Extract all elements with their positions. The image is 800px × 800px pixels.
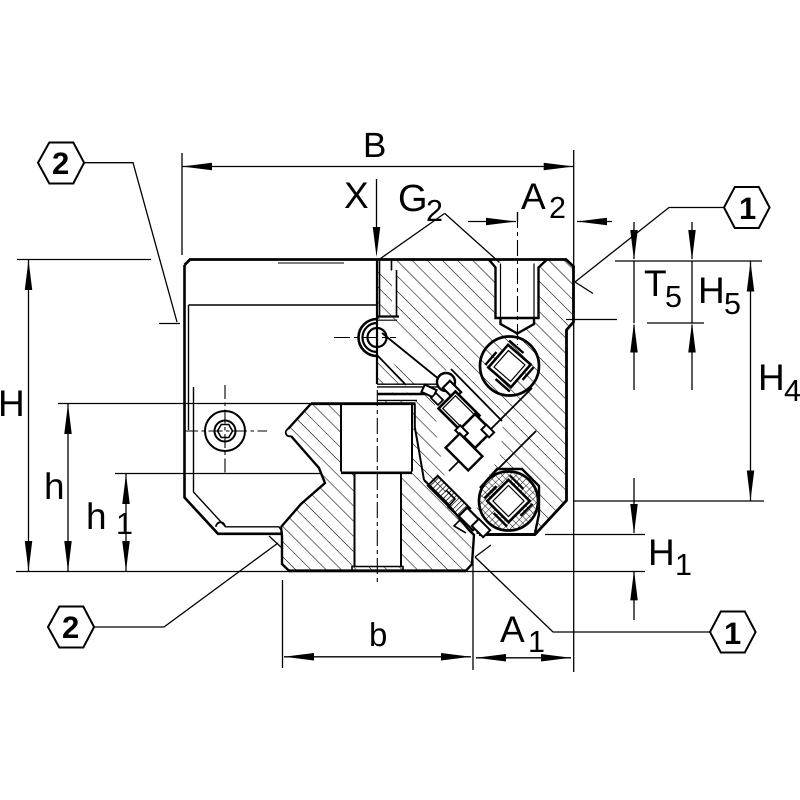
svg-text:T: T bbox=[644, 263, 667, 304]
svg-text:2: 2 bbox=[426, 194, 443, 228]
svg-text:1: 1 bbox=[116, 507, 133, 541]
svg-text:A: A bbox=[500, 609, 525, 650]
svg-text:2: 2 bbox=[62, 610, 79, 645]
svg-text:1: 1 bbox=[528, 625, 545, 659]
svg-text:G: G bbox=[398, 178, 428, 220]
svg-text:B: B bbox=[363, 126, 386, 165]
svg-text:h: h bbox=[44, 466, 65, 507]
svg-text:1: 1 bbox=[724, 616, 741, 651]
svg-text:4: 4 bbox=[784, 374, 800, 408]
svg-text:A: A bbox=[521, 176, 546, 217]
svg-text:2: 2 bbox=[52, 146, 69, 181]
svg-text:H: H bbox=[0, 383, 25, 424]
svg-text:1: 1 bbox=[739, 191, 756, 226]
svg-text:b: b bbox=[369, 616, 387, 653]
svg-text:H: H bbox=[758, 357, 785, 398]
svg-text:X: X bbox=[344, 175, 369, 216]
svg-text:h: h bbox=[86, 496, 107, 537]
svg-text:5: 5 bbox=[724, 287, 741, 321]
svg-text:2: 2 bbox=[549, 191, 566, 225]
svg-text:1: 1 bbox=[675, 548, 692, 582]
svg-text:H: H bbox=[698, 270, 725, 311]
svg-text:H: H bbox=[648, 532, 675, 573]
svg-text:5: 5 bbox=[665, 280, 682, 314]
